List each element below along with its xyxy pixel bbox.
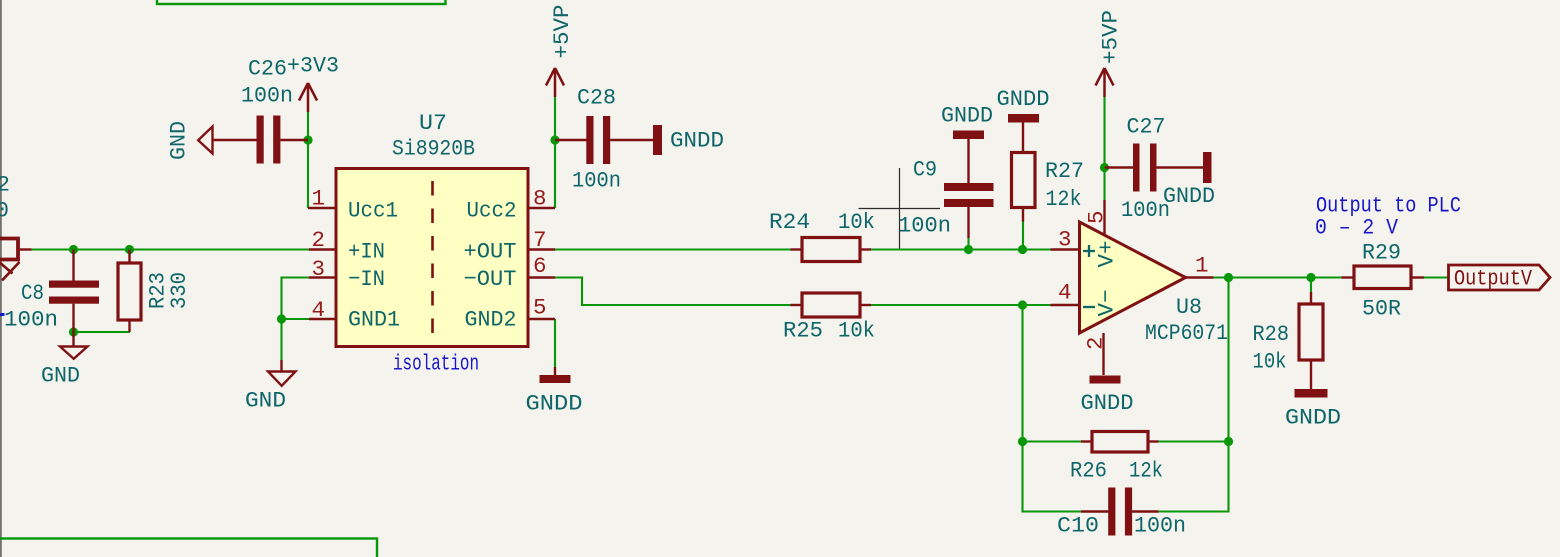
svg-text:R28: R28 xyxy=(1253,321,1290,347)
svg-text:100n: 100n xyxy=(898,213,951,239)
svg-text:GNDD: GNDD xyxy=(526,391,583,417)
svg-text:−OUT: −OUT xyxy=(464,266,517,292)
wire U7 pin3 left xyxy=(282,278,310,320)
junction R27 bottom xyxy=(1018,245,1027,254)
svg-text:Ucc2: Ucc2 xyxy=(467,198,517,224)
ground GND below C8 xyxy=(41,332,88,389)
wire C9 lead lower xyxy=(967,237,969,250)
svg-text:R24: R24 xyxy=(769,209,810,235)
svg-text:isolation: isolation xyxy=(393,352,479,377)
junction input/R23 xyxy=(125,245,134,254)
svg-text:MCP6071: MCP6071 xyxy=(1145,320,1228,346)
junction C26/+3V3 xyxy=(303,135,312,144)
note Output to PLC xyxy=(1315,194,1461,241)
sheet frame left border xyxy=(0,0,2,557)
svg-text:4: 4 xyxy=(1058,280,1072,306)
svg-text:OutputV: OutputV xyxy=(1454,267,1533,292)
junction R26 left xyxy=(1018,437,1027,446)
capacitor C10 xyxy=(1057,488,1186,539)
U7 pin 8 Ucc2 xyxy=(467,186,556,224)
wire +3V3 to C26 node xyxy=(307,111,309,140)
svg-text:100n: 100n xyxy=(1134,513,1186,539)
svg-text:U7: U7 xyxy=(419,110,447,136)
svg-text:R29: R29 xyxy=(1362,240,1401,266)
svg-text:5: 5 xyxy=(533,295,547,321)
resistor R25 xyxy=(783,293,875,344)
svg-text:V−: V− xyxy=(1094,290,1120,317)
op-amp U8 MCP6071 xyxy=(1080,222,1229,346)
svg-text:V+: V+ xyxy=(1094,241,1120,268)
wire R26 right xyxy=(1158,440,1229,442)
svg-text:+IN: +IN xyxy=(348,239,385,265)
wire C26 node to U7 pin1 xyxy=(307,140,309,208)
svg-text:5: 5 xyxy=(1084,210,1110,224)
sheet region box top xyxy=(157,0,446,4)
svg-text:C27: C27 xyxy=(1127,114,1166,140)
U7 pin 5 GND2 xyxy=(465,295,556,333)
wire U7 pin7 to R24 xyxy=(555,248,791,250)
power +5VP left xyxy=(546,5,575,98)
ground GND below U7 pin4 xyxy=(245,360,296,414)
wire R27 bottom link xyxy=(1022,221,1024,250)
junction input/C8 xyxy=(69,245,78,254)
wire R29 to OutputV label xyxy=(1424,276,1449,278)
svg-text:GND1: GND1 xyxy=(348,307,400,333)
resistor R26 xyxy=(1070,432,1163,484)
svg-text:100n: 100n xyxy=(4,307,58,333)
wire R26 left xyxy=(1023,440,1082,442)
svg-text:C26: C26 xyxy=(248,56,287,82)
svg-text:GNDD: GNDD xyxy=(670,128,724,154)
wire +5VP to C28 node xyxy=(554,96,556,140)
junction R26 right xyxy=(1224,437,1233,446)
svg-text:R25: R25 xyxy=(783,318,823,344)
svg-text:10k: 10k xyxy=(1253,349,1287,375)
svg-text:0: 0 xyxy=(0,198,9,224)
resistor R29 xyxy=(1342,240,1425,322)
hierarchical label partial (left edge, input) xyxy=(0,239,32,260)
svg-text:GND: GND xyxy=(41,363,80,389)
U7 pin 7 +OUT xyxy=(464,227,556,265)
U7 pin 6 -OUT xyxy=(464,253,556,292)
power +3V3 xyxy=(287,53,339,113)
capacitor C8 xyxy=(4,250,99,333)
sheet region box bottom-left xyxy=(0,539,377,557)
U7 pin 2 +IN xyxy=(309,227,385,265)
wire U7 pin5 to GNDD xyxy=(554,319,556,368)
ground GNDD below U7 pin5 xyxy=(526,367,583,417)
capacitor C9 xyxy=(898,139,994,239)
svg-text:12k: 12k xyxy=(1046,186,1082,212)
resistor R27 xyxy=(1012,123,1085,222)
wire R25 to opamp pin4 xyxy=(871,304,1051,306)
svg-text:10k: 10k xyxy=(838,318,875,344)
junction C8 bottom xyxy=(69,327,78,336)
svg-text:1: 1 xyxy=(312,186,326,212)
svg-text:+3V3: +3V3 xyxy=(287,53,339,79)
svg-text:C28: C28 xyxy=(577,85,616,111)
wire R24 to opamp pin3 xyxy=(871,248,1051,250)
junction opamp output xyxy=(1224,273,1233,282)
resistor R23 xyxy=(118,250,192,333)
ground GNDD right of C28 xyxy=(653,125,724,155)
svg-text:3: 3 xyxy=(312,256,326,282)
capacitor C28 xyxy=(555,85,653,194)
svg-text:330: 330 xyxy=(166,272,192,309)
U8 pin 3 xyxy=(1051,227,1080,253)
svg-text:+5VP: +5VP xyxy=(549,5,575,59)
ground GNDD above C9 xyxy=(941,103,993,140)
svg-text:GND: GND xyxy=(166,121,192,160)
svg-text:GNDD: GNDD xyxy=(1285,405,1341,431)
svg-text:C10: C10 xyxy=(1057,513,1099,539)
wire opamp pin1 to R29 xyxy=(1213,276,1342,278)
label text partial "2" xyxy=(0,172,10,198)
U7 pin 3 -IN xyxy=(309,256,385,292)
junction C28/+5VP xyxy=(550,135,559,144)
U8 pin 4 xyxy=(1051,280,1080,306)
capacitor C27 xyxy=(1105,114,1204,224)
ground GNDD right of C27 xyxy=(1163,152,1215,209)
svg-text:Ucc1: Ucc1 xyxy=(348,198,398,224)
svg-text:R27: R27 xyxy=(1045,158,1084,184)
wire +5VP right to opamp pin5 xyxy=(1103,96,1105,200)
svg-text:R26: R26 xyxy=(1070,458,1107,484)
label text partial "0" xyxy=(0,198,9,224)
wire U7 pin3/4 node to GND xyxy=(280,319,282,360)
label text partial blue dash xyxy=(0,313,5,316)
wire C8 bottom to R23 bottom xyxy=(74,331,131,333)
wire U7 pin6 to R25 xyxy=(555,278,791,306)
svg-text:50R: 50R xyxy=(1362,296,1401,322)
svg-text:100n: 100n xyxy=(241,83,293,109)
wire R28 top link xyxy=(1310,278,1312,293)
U8 pin 2 xyxy=(1083,333,1109,375)
wire C10 right to output vertical xyxy=(1158,278,1229,512)
svg-text:−IN: −IN xyxy=(348,266,385,292)
ground GNDD below U8 pin2 xyxy=(1081,376,1134,417)
svg-text:6: 6 xyxy=(533,253,547,279)
op-isolator U7 Si8920B xyxy=(336,110,528,377)
svg-text:GNDD: GNDD xyxy=(1081,390,1134,416)
svg-text:Si8920B: Si8920B xyxy=(392,136,475,162)
svg-text:C8: C8 xyxy=(21,280,44,306)
ground symbol partial (left edge) xyxy=(0,261,20,281)
U7 pin 4 GND1 xyxy=(309,297,400,333)
hierarchical label OutputV xyxy=(1449,265,1551,292)
ground GNDD above R27 xyxy=(997,86,1050,123)
svg-text:GNDD: GNDD xyxy=(1163,183,1215,209)
svg-text:GND: GND xyxy=(245,388,286,414)
junction R28 top xyxy=(1306,273,1315,282)
cursor crosshair xyxy=(859,168,941,251)
U7 pin 1 Ucc1 xyxy=(308,186,398,224)
svg-text:12k: 12k xyxy=(1129,458,1163,484)
resistor R24 xyxy=(769,209,875,262)
svg-text:2: 2 xyxy=(0,172,10,198)
junction C27/+5VP xyxy=(1100,163,1109,172)
junction U7 pin3-pin4 xyxy=(277,314,286,323)
svg-text:C9: C9 xyxy=(913,157,937,183)
svg-text:1: 1 xyxy=(1195,253,1209,279)
svg-text:4: 4 xyxy=(312,297,326,323)
ground GNDD below R28 xyxy=(1285,389,1341,431)
ground GND left of C26 xyxy=(166,121,213,160)
wire input to U7 pin2 xyxy=(31,248,309,250)
wire feedback left vertical xyxy=(1023,305,1082,512)
wire C28 node to U7 pin8 xyxy=(554,140,556,208)
svg-text:3: 3 xyxy=(1058,227,1072,253)
svg-text:10k: 10k xyxy=(838,209,875,235)
wire U7 pin4 stub link xyxy=(282,318,310,320)
svg-text:+5VP: +5VP xyxy=(1098,10,1124,64)
junction C9 xyxy=(964,245,973,254)
power +5VP right xyxy=(1096,10,1124,97)
U8 pin 5 xyxy=(1084,200,1110,235)
junction opamp pin4 feedback xyxy=(1018,300,1027,309)
svg-text:0 – 2 V: 0 – 2 V xyxy=(1315,216,1399,241)
svg-text:GNDD: GNDD xyxy=(997,86,1050,112)
svg-text:2: 2 xyxy=(312,227,326,253)
svg-text:8: 8 xyxy=(533,186,547,212)
svg-text:7: 7 xyxy=(533,227,547,253)
svg-text:+OUT: +OUT xyxy=(464,239,517,265)
svg-text:100n: 100n xyxy=(572,168,621,194)
resistor R28 xyxy=(1253,292,1324,389)
svg-text:GNDD: GNDD xyxy=(941,103,993,129)
svg-text:2: 2 xyxy=(1083,336,1109,350)
capacitor C26 xyxy=(213,56,309,164)
svg-text:U8: U8 xyxy=(1176,294,1202,320)
U8 pin 1 xyxy=(1186,253,1214,279)
svg-text:GND2: GND2 xyxy=(465,307,517,333)
